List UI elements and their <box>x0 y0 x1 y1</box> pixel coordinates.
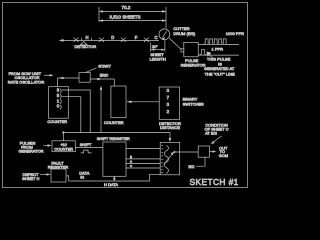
selector wiper arrow <box>164 154 173 165</box>
wire gate right <box>90 78 114 80</box>
wire selector output <box>174 151 198 153</box>
selector squiggle <box>164 146 168 174</box>
wire from detector distance to counter 2 <box>127 101 159 103</box>
svg-text:0: 0 <box>167 102 170 107</box>
svg-text:DETECTOR: DETECTOR <box>74 44 96 49</box>
dimension 20in sheet length <box>150 40 166 62</box>
svg-text:B: B <box>130 155 132 159</box>
shift pulse symbol <box>81 150 92 153</box>
wire data into shift register <box>113 178 115 182</box>
svg-text:SWITCHES: SWITCHES <box>183 101 204 106</box>
wire oscillator arrow <box>44 74 52 76</box>
pulse generator input stub <box>181 49 184 52</box>
fault register box <box>51 169 66 182</box>
wire shift <box>75 146 103 148</box>
bus wire horizontal <box>63 132 170 134</box>
svg-text:1000 PPR: 1000 PPR <box>226 31 244 36</box>
wire gate left <box>57 77 79 79</box>
sheet gap mark X3 <box>121 38 126 42</box>
svg-text:DISTANCE: DISTANCE <box>160 125 180 130</box>
wire bus up arrow to END <box>100 88 102 133</box>
shift register output wires <box>126 148 160 150</box>
svg-text:IN: IN <box>80 174 84 179</box>
selector box <box>160 142 180 174</box>
svg-text:70.2: 70.2 <box>122 5 131 10</box>
svg-text:LENGTH: LENGTH <box>150 56 166 61</box>
svg-text:REGISTER: REGISTER <box>48 164 69 169</box>
condition callout arrow <box>213 136 222 143</box>
svg-text:D: D <box>111 35 114 40</box>
svg-text:C: C <box>130 164 133 168</box>
waveform pulse train <box>204 39 227 43</box>
counter 2 box <box>111 86 126 118</box>
wire 1 PPR output <box>198 54 239 56</box>
wire fault register output <box>66 176 69 181</box>
svg-text:COUNTER: COUNTER <box>47 119 67 124</box>
svg-text:DRUM (E/2): DRUM (E/2) <box>173 31 195 36</box>
svg-text:A: A <box>130 160 132 164</box>
svg-text:GCM: GCM <box>219 153 228 158</box>
svg-text:SHIFT REGISTER: SHIFT REGISTER <box>97 136 130 141</box>
svg-text:RATE OSCILLATOR: RATE OSCILLATOR <box>8 79 45 84</box>
detector distance box <box>159 87 179 119</box>
svg-text:1 PPR: 1 PPR <box>212 47 224 52</box>
gate box <box>79 73 90 83</box>
sheet H edge ticks <box>82 38 92 41</box>
cutter drum circle <box>159 29 170 40</box>
svg-text:20": 20" <box>152 44 158 49</box>
svg-text:5: 5 <box>57 93 60 98</box>
wire condition output arrow <box>209 151 214 153</box>
svg-text:GENERATED AT: GENERATED AT <box>204 66 235 71</box>
callout arrow to cut pulse <box>209 54 213 58</box>
svg-text:SKETCH #1: SKETCH #1 <box>190 177 239 187</box>
callout start line <box>86 68 97 73</box>
selector tap ticks <box>161 145 163 172</box>
wire tap digit 5 <box>62 97 81 133</box>
sheet conveyor line <box>60 39 159 41</box>
dimension 70.2 <box>99 5 166 28</box>
wire to counter 1 top <box>56 78 58 87</box>
svg-text:3,510 SHEETS: 3,510 SHEETS <box>109 15 140 20</box>
svg-text:COUNTER: COUNTER <box>104 120 124 125</box>
svg-text:3: 3 <box>57 88 60 93</box>
svg-text:START: START <box>98 63 111 68</box>
counter 1 digit arcs <box>60 89 61 109</box>
svg-text:SHIFT: SHIFT <box>80 142 92 147</box>
div10 counter box <box>52 141 75 152</box>
sheet gap mark X4 <box>144 38 149 42</box>
svg-text:H DATA: H DATA <box>104 182 118 187</box>
waveform single pulse <box>200 50 207 55</box>
wire bottom jog into selector <box>150 174 161 181</box>
svg-text:1: 1 <box>57 98 60 103</box>
border frame <box>3 3 248 188</box>
selector wiper dot <box>173 151 175 153</box>
svg-text:H: H <box>85 35 88 40</box>
wire drum to pulse generator <box>169 38 181 50</box>
wire defect arrow <box>40 173 49 175</box>
dimension 3,510 SHEETS <box>99 15 166 22</box>
wire bus to div10 counter <box>62 133 64 141</box>
svg-text:GENERATOR: GENERATOR <box>181 63 206 68</box>
svg-text:THE "CUT" LINE: THE "CUT" LINE <box>205 72 236 77</box>
svg-text:F: F <box>135 35 138 40</box>
sheet gap mark X2 <box>99 38 104 42</box>
wire bus to selector arrowhead <box>169 133 171 140</box>
conveyor direction arrowhead <box>59 39 64 42</box>
counter 1 box <box>48 87 68 119</box>
wire e/2 bracket <box>196 157 205 166</box>
wire pulses arrow <box>44 145 51 147</box>
detector triangle <box>80 42 87 45</box>
svg-text:END: END <box>100 73 109 78</box>
wire 1000 PPR output <box>198 44 239 46</box>
svg-text:E/2: E/2 <box>188 164 195 169</box>
pulse generator box <box>184 42 198 56</box>
wire bottom data bus <box>69 180 150 182</box>
bus junction dot <box>62 131 64 133</box>
svg-text:GENERATOR: GENERATOR <box>19 149 44 154</box>
svg-text:SHEET H: SHEET H <box>22 176 39 181</box>
condition box <box>198 146 209 157</box>
svg-text:0: 0 <box>57 104 60 109</box>
svg-text:2: 2 <box>167 109 170 114</box>
svg-text:7: 7 <box>167 95 170 100</box>
wire tap digit 3 <box>62 90 90 133</box>
svg-text:AT E/2: AT E/2 <box>205 130 218 135</box>
svg-text:÷10: ÷10 <box>60 143 66 147</box>
wire to counter 2 top <box>113 79 115 86</box>
svg-text:COUNTER: COUNTER <box>54 148 73 152</box>
shift register box <box>103 142 126 176</box>
sheet gap mark X1 <box>74 38 79 42</box>
svg-text:0: 0 <box>167 88 170 93</box>
svg-text:C: C <box>154 35 157 40</box>
cutter drum rotation arrow <box>162 31 167 37</box>
